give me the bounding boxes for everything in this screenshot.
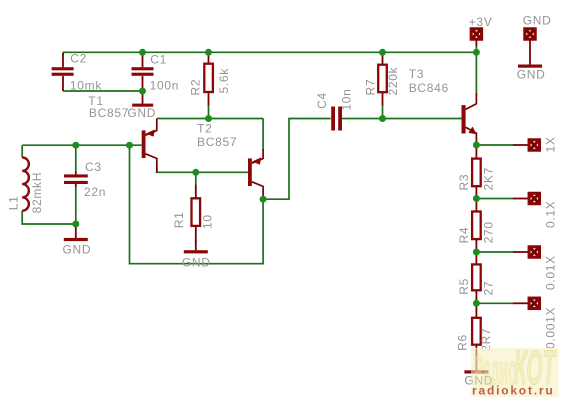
svg-text:27: 27 — [482, 281, 496, 296]
svg-text:C2: C2 — [70, 51, 87, 65]
capacitor C1 — [142, 52, 144, 91]
ground under R6 — [475, 358, 477, 370]
wire +3V to top rail — [475, 46, 477, 52]
svg-text:R2: R2 — [189, 79, 203, 96]
junction node T2 collector — [260, 196, 267, 203]
supply pad GND (top right) — [525, 29, 535, 65]
svg-text:R1: R1 — [172, 211, 186, 228]
output pad 1X — [513, 140, 540, 150]
junction node C1 bottom — [139, 88, 146, 95]
svg-text:R3: R3 — [457, 174, 471, 191]
svg-text:1X: 1X — [543, 136, 557, 152]
svg-text:GND: GND — [182, 255, 211, 269]
svg-text:82mkH: 82mkH — [30, 172, 44, 214]
wire R7 bottom — [382, 105, 384, 119]
svg-text:+3V: +3V — [469, 15, 493, 29]
ground under R1 — [195, 239, 197, 250]
ground symbol top right — [518, 65, 542, 68]
resistor R6 — [475, 303, 477, 358]
supply pad +3V — [471, 29, 481, 47]
watermark radiokot — [464, 341, 558, 397]
svg-text:R5: R5 — [457, 278, 471, 295]
transistor T3 BC846 (NPN) — [462, 93, 477, 145]
junction node R7 top — [379, 49, 386, 56]
output pad 0.001X — [513, 298, 540, 308]
capacitor C4 — [331, 107, 342, 131]
wire output node 0.01X — [476, 251, 513, 253]
capacitor C3 — [75, 172, 77, 188]
svg-text:BC857: BC857 — [89, 106, 129, 120]
capacitor C2 — [62, 53, 64, 91]
svg-text:R4: R4 — [457, 227, 471, 244]
wire L1 left branch — [22, 145, 76, 224]
junction node 0.001X — [473, 300, 480, 307]
svg-text:BC857: BC857 — [197, 135, 237, 149]
ground under C1 — [142, 91, 144, 104]
wire R2 bottom — [208, 105, 210, 119]
wire L1/C3 rail to T1 base — [22, 144, 142, 146]
svg-text:T2: T2 — [197, 122, 212, 136]
svg-text:L1: L1 — [7, 196, 21, 211]
wire output node 1X — [476, 144, 513, 146]
transistor T1 BC857 (PNP) — [142, 119, 157, 173]
svg-text:220k: 220k — [386, 66, 400, 95]
wire top supply rail — [63, 51, 476, 53]
svg-text:GND: GND — [127, 106, 156, 120]
output pad 0.01X — [513, 247, 540, 257]
junction node R2 bottom — [205, 115, 212, 122]
wire emitter rail T1-T2 — [157, 118, 263, 120]
svg-text:5.6k: 5.6k — [217, 68, 231, 94]
junction node R7 bottom — [379, 115, 386, 122]
wire R1 top — [195, 172, 197, 185]
svg-text:GND: GND — [517, 68, 546, 82]
resistor R7 — [382, 52, 384, 105]
svg-text:10n: 10n — [340, 88, 354, 110]
svg-text:10: 10 — [200, 214, 214, 229]
svg-text:radiokot.ru: radiokot.ru — [472, 384, 554, 398]
svg-text:2K7: 2K7 — [482, 167, 496, 190]
svg-text:0.1X: 0.1X — [543, 201, 557, 229]
wire lower ground rail C2-C1 — [63, 90, 143, 92]
svg-text:0.01X: 0.01X — [543, 255, 557, 290]
svg-text:GND: GND — [63, 243, 92, 257]
svg-text:C4: C4 — [315, 92, 329, 109]
junction node C1 top — [139, 49, 146, 56]
junction node C3 top — [72, 142, 79, 149]
svg-text:T3: T3 — [409, 67, 424, 81]
svg-text:C3: C3 — [85, 160, 102, 174]
resistor R1 — [195, 185, 197, 240]
junction node feedback/T1 base — [126, 142, 133, 149]
junction node 0.01X — [473, 249, 480, 256]
resistor R4 — [475, 199, 477, 253]
wire C4 to R7 to T3 base — [342, 118, 462, 120]
svg-text:22n: 22n — [84, 185, 106, 199]
junction node +3V — [473, 49, 480, 56]
junction node 1X — [473, 142, 480, 149]
svg-text:BC846: BC846 — [409, 81, 449, 95]
resistor R2 — [208, 52, 210, 105]
svg-text:R7: R7 — [364, 79, 378, 96]
junction node R2 top — [205, 49, 212, 56]
junction node 0.1X — [473, 195, 480, 202]
wire T1 collector to T2 base — [156, 166, 248, 172]
wire output node 0.1X — [476, 198, 513, 200]
output pad 0.1X — [513, 193, 540, 203]
wire output node 0.001X — [476, 302, 513, 304]
svg-text:C1: C1 — [150, 53, 167, 67]
wire T3 collector — [475, 52, 477, 93]
wire R1 bottom above GND — [195, 239, 197, 244]
wire T2 collector to C4 — [263, 119, 331, 200]
wire feedback box T1 base to T2 collector — [130, 145, 264, 264]
junction node R1 top — [192, 169, 199, 176]
wire C2 top branch — [62, 52, 64, 56]
svg-text:100n: 100n — [150, 78, 180, 92]
resistor R5 — [475, 252, 477, 303]
svg-text:10mk: 10mk — [70, 78, 102, 92]
svg-text:GND: GND — [523, 14, 552, 28]
resistor R3 — [475, 145, 477, 199]
svg-text:R6: R6 — [456, 334, 470, 351]
transistor T2 BC857 (PNP) — [248, 119, 263, 200]
junction node C3 bottom — [72, 221, 79, 228]
svg-text:270: 270 — [482, 221, 496, 243]
wire C3 branch — [75, 145, 77, 224]
inductor L1 — [22, 158, 29, 211]
ground under C3 — [75, 224, 77, 238]
